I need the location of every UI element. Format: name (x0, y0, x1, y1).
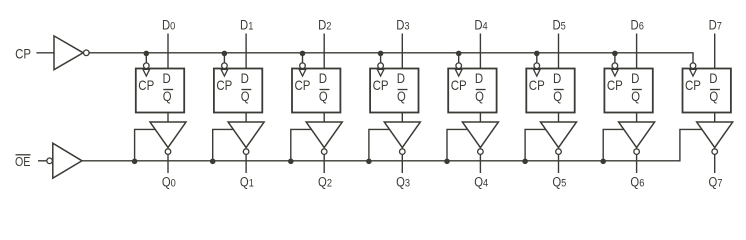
D flip-flop latch 0 (136, 63, 184, 113)
svg-text:D3: D3 (396, 17, 410, 32)
svg-text:CP: CP (451, 77, 467, 93)
node Q7 (709, 174, 723, 189)
svg-text:Q: Q (163, 89, 172, 104)
svg-text:CP: CP (529, 77, 545, 93)
node Q2 (318, 174, 332, 189)
tri-state inverter 3 (384, 122, 420, 154)
junction OE tap 1 (210, 159, 216, 165)
inverter (CP driver) (54, 36, 83, 70)
junction CP tap 3 (378, 51, 384, 57)
wire Q-bar to buffer 0 (167, 113, 169, 123)
inverter output bubble (84, 50, 90, 56)
wire Q6 output (636, 154, 638, 173)
node D1 (240, 17, 254, 32)
svg-text:D: D (397, 70, 405, 86)
node D4 (474, 17, 488, 32)
node OE-bar input label (15, 154, 31, 169)
svg-text:D: D (241, 70, 249, 86)
wire enable 0 (135, 129, 156, 160)
svg-text:D7: D7 (709, 17, 723, 32)
svg-text:Q: Q (397, 89, 406, 104)
junction OE tap 4 (444, 159, 450, 165)
tri-state inverter 7 (697, 122, 733, 154)
junction OE tap 2 (288, 159, 294, 165)
D flip-flop latch 2 (292, 63, 340, 113)
node Q1 (240, 174, 254, 189)
svg-text:D0: D0 (162, 17, 176, 32)
svg-text:D: D (631, 70, 639, 86)
junction CP tap 6 (612, 51, 618, 57)
wire OE input (38, 160, 46, 162)
D flip-flop latch 7 (683, 63, 731, 113)
svg-text:Q: Q (241, 89, 250, 104)
node Q5 (552, 174, 566, 189)
svg-text:OE: OE (15, 154, 30, 169)
svg-text:Q: Q (475, 89, 484, 104)
node D5 (552, 17, 566, 32)
junction OE tap 3 (366, 159, 372, 165)
wire Q-bar to buffer 6 (636, 113, 638, 123)
wire Q3 output (401, 154, 403, 173)
wire OE bus (82, 129, 702, 160)
wire CP drop 5 (536, 53, 538, 63)
D flip-flop latch 3 (370, 63, 418, 113)
svg-text:D: D (709, 70, 717, 86)
svg-text:Q4: Q4 (474, 174, 488, 189)
wire Q-bar to buffer 7 (714, 113, 716, 123)
node CP input label (15, 45, 31, 61)
wire Q-bar to buffer 1 (245, 113, 247, 123)
svg-text:CP: CP (685, 77, 701, 93)
wire D6 input (636, 34, 638, 69)
wire D1 input (245, 34, 247, 69)
node D2 (318, 17, 332, 32)
svg-text:Q: Q (631, 89, 640, 104)
svg-text:Q: Q (709, 89, 718, 104)
wire Q-bar to buffer 5 (558, 113, 560, 123)
wire D3 input (401, 34, 403, 69)
wire Q-bar to buffer 4 (479, 113, 481, 123)
buffer input bubble (OE) (47, 158, 53, 164)
svg-text:CP: CP (216, 77, 232, 93)
junction CP tap 2 (300, 51, 306, 57)
node Q3 (396, 174, 410, 189)
wire enable 1 (213, 129, 234, 160)
svg-text:Q3: Q3 (396, 174, 410, 189)
buffer (OE driver) (53, 143, 82, 178)
wire D5 input (558, 34, 560, 69)
node D3 (396, 17, 410, 32)
svg-text:CP: CP (15, 45, 31, 61)
wire Q7 output (714, 154, 716, 173)
D flip-flop latch 1 (214, 63, 262, 113)
svg-text:D: D (553, 70, 561, 86)
svg-text:D6: D6 (631, 17, 645, 32)
junction CP tap 0 (144, 51, 150, 57)
svg-text:D1: D1 (240, 17, 254, 32)
wire Q-bar to buffer 2 (323, 113, 325, 123)
node Q0 (162, 174, 176, 189)
wire Q-bar to buffer 3 (401, 113, 403, 123)
svg-text:D: D (319, 70, 327, 86)
junction OE tap 0 (132, 159, 138, 165)
D flip-flop latch 4 (448, 63, 496, 113)
svg-text:D: D (163, 70, 171, 86)
wire enable 2 (291, 129, 312, 160)
junction CP tap 1 (222, 51, 228, 57)
svg-text:CP: CP (607, 77, 623, 93)
wire Q5 output (558, 154, 560, 173)
svg-text:CP: CP (295, 77, 311, 93)
wire CP drop 1 (223, 53, 225, 63)
svg-text:Q6: Q6 (630, 174, 644, 189)
svg-text:D4: D4 (474, 17, 488, 32)
svg-text:CP: CP (138, 77, 154, 93)
tri-state inverter 1 (228, 122, 264, 154)
junction OE tap 5 (522, 159, 528, 165)
wire enable 3 (369, 129, 390, 160)
node Q6 (630, 174, 644, 189)
wire Q1 output (245, 154, 247, 173)
tri-state inverter 2 (306, 122, 342, 154)
tri-state inverter 4 (462, 122, 498, 154)
wire Q4 output (479, 154, 481, 173)
tri-state inverter 6 (619, 122, 655, 154)
node D7 (709, 17, 723, 32)
svg-text:Q: Q (553, 89, 562, 104)
node D6 (631, 17, 645, 32)
svg-text:Q5: Q5 (552, 174, 566, 189)
wire enable 6 (603, 129, 624, 160)
wire CP drop 3 (380, 53, 382, 63)
wire enable 5 (525, 129, 546, 160)
wire CP input (36, 52, 54, 54)
svg-text:Q0: Q0 (162, 174, 176, 189)
wire D0 input (167, 34, 169, 69)
node Q4 (474, 174, 488, 189)
wire D7 input (714, 34, 716, 69)
junction CP tap 5 (534, 51, 540, 57)
wire CP drop 0 (145, 53, 147, 63)
svg-text:CP: CP (373, 77, 389, 93)
junction OE tap 6 (600, 159, 606, 165)
tri-state inverter 0 (150, 122, 186, 154)
svg-text:Q1: Q1 (240, 174, 254, 189)
svg-text:D: D (475, 70, 483, 86)
wire enable 4 (447, 129, 468, 160)
wire Q0 output (167, 154, 169, 173)
wire Q2 output (323, 154, 325, 173)
D flip-flop latch 5 (526, 63, 574, 113)
node D0 (162, 17, 176, 32)
wire CP drop 4 (458, 53, 460, 63)
wire CP drop 6 (614, 53, 616, 63)
wire D4 input (479, 34, 481, 69)
D flip-flop latch 6 (604, 63, 652, 113)
wire CP drop 2 (302, 53, 304, 63)
tri-state inverter 5 (541, 122, 577, 154)
junction CP tap 4 (456, 51, 462, 57)
svg-text:Q: Q (319, 89, 328, 104)
svg-text:Q7: Q7 (709, 174, 723, 189)
svg-text:D5: D5 (552, 17, 566, 32)
wire D2 input (323, 34, 325, 69)
svg-text:D2: D2 (318, 17, 332, 32)
svg-text:Q2: Q2 (318, 174, 332, 189)
wire CP bus (89, 53, 693, 63)
